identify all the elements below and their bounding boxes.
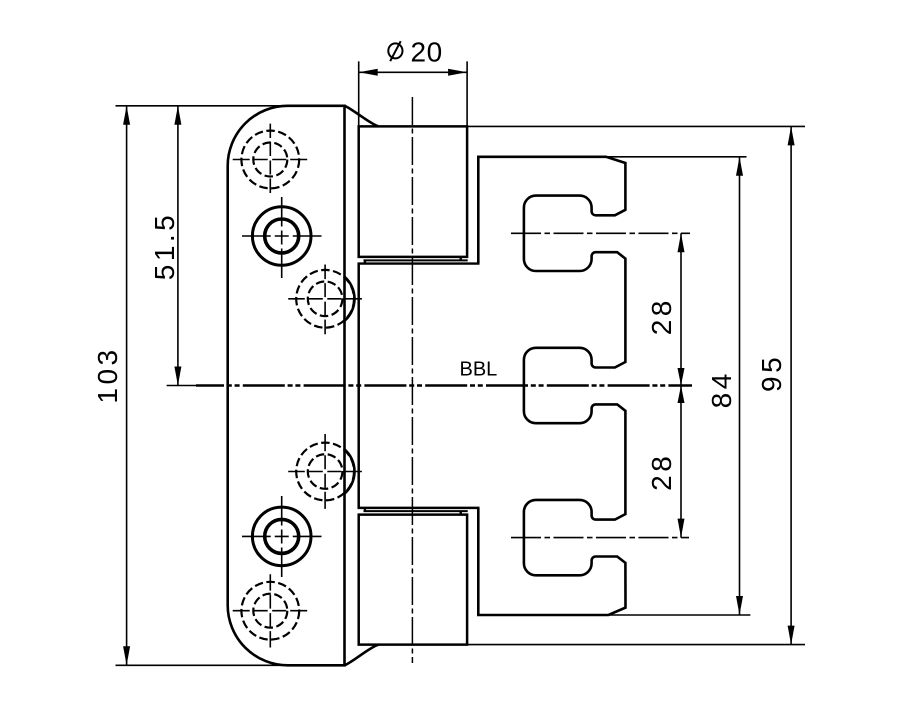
knuckle joint tickR top — [460, 257, 462, 261]
svg-text:28: 28 — [646, 297, 677, 335]
hole C2 crosshair — [288, 471, 362, 473]
arrow 103 bottom — [123, 646, 130, 665]
cutout1 centerline — [511, 232, 690, 234]
extension line 103/51.5 top — [116, 105, 291, 107]
hole B crosshair — [242, 235, 322, 237]
fillet bottom (plate to barrel) — [345, 645, 379, 666]
knuckle joint lineA1 bottom — [358, 507, 480, 510]
knuckle joint tickRb bottom — [460, 511, 462, 514]
hole C crosshair — [288, 298, 362, 300]
arrow 28bot up — [678, 386, 685, 404]
hole C outer dashed — [296, 270, 354, 328]
arrow 84 top — [736, 157, 743, 176]
dim line dia20 — [359, 71, 467, 73]
extension lines dia20 — [359, 61, 467, 126]
arrow 84 bottom — [736, 596, 743, 615]
hole C inner dashed — [308, 282, 343, 317]
arrow 28top down — [678, 368, 685, 386]
svg-text:28: 28 — [646, 453, 677, 491]
hole A inner dashed — [253, 143, 287, 177]
arrow 51.5 top — [174, 106, 181, 125]
arrow 95 bottom — [788, 626, 795, 645]
svg-text:BBL: BBL — [460, 359, 498, 381]
barrel bottom knuckle — [359, 515, 467, 645]
extension line 95 bottom — [467, 644, 805, 646]
barrel centerline — [411, 97, 413, 663]
extension line 84 bottom — [609, 614, 750, 616]
arrow dia20 left — [359, 69, 378, 76]
arrow 103 top — [123, 106, 130, 125]
knuckle joint tickL top — [364, 260, 366, 263]
hole B inner — [265, 219, 299, 253]
knuckle joint lineA2 bottom — [364, 510, 468, 512]
hole A2 inner dashed — [253, 594, 287, 628]
arrow 95 top — [788, 126, 795, 145]
dim line 51.5 — [177, 106, 179, 386]
extension line 95 top — [467, 125, 805, 127]
hole B outer — [252, 207, 311, 266]
arrow dia20 right — [448, 69, 467, 76]
middle knuckle left edge — [357, 264, 360, 508]
arrow 28bot down — [678, 519, 685, 538]
hole A2 outer dashed — [241, 582, 299, 640]
bump arc hole C2 — [345, 449, 355, 493]
dim line 84 — [739, 157, 741, 615]
dim line 28 bottom — [680, 386, 682, 538]
knuckle joint line2 top — [364, 259, 468, 261]
extension line 103 bottom — [116, 664, 289, 666]
fillet top (plate to barrel) — [345, 106, 379, 127]
hole A outer dashed — [241, 131, 299, 189]
arrow 28top up — [678, 233, 685, 252]
dim line 95 — [790, 126, 792, 644]
hole A crosshair — [233, 159, 308, 161]
BBL centerline — [167, 385, 196, 387]
bump arc hole C — [345, 277, 355, 321]
hole A2 crosshair — [233, 610, 308, 612]
svg-text:51.5: 51.5 — [149, 212, 180, 281]
dim line 28 top — [680, 233, 682, 385]
barrel top knuckle — [359, 126, 467, 257]
comb outline (frame part) — [478, 157, 625, 615]
plate outline (door leaf, edge view) — [228, 106, 345, 666]
hole B2 crosshair — [242, 535, 322, 537]
svg-text:103: 103 — [92, 346, 123, 403]
knuckle joint line3 top — [358, 262, 480, 264]
hole B2 outer — [252, 507, 311, 566]
hole B2 inner — [265, 519, 299, 553]
extension line 84 top — [605, 156, 747, 158]
svg-text:20: 20 — [411, 37, 443, 68]
knuckle joint tickLb bottom — [364, 508, 366, 511]
dim line 103 — [126, 106, 128, 666]
svg-text:84: 84 — [706, 370, 737, 408]
arrow 51.5 bottom — [174, 367, 181, 386]
hole C2 outer dashed — [296, 443, 354, 501]
svg-text:95: 95 — [756, 354, 787, 392]
cutout3 centerline — [511, 537, 689, 539]
hole C2 inner dashed — [308, 454, 343, 489]
